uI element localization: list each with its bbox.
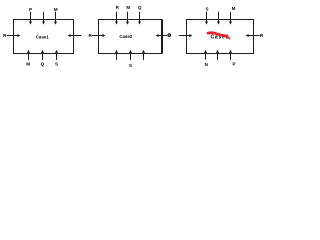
wire bottom pin 3 of Case2 [143, 53, 145, 60]
arrowhead bottom pin 1 of Case3 [204, 50, 207, 53]
wire bottom pin 1 of Case3 [205, 53, 207, 60]
svg-text:M: M [232, 6, 236, 11]
arrowhead bottom pin 3 of Case2 [142, 50, 145, 53]
arrowhead top pin 1 of Case3 [205, 22, 208, 25]
wire top pin 2 of Case2 [127, 12, 129, 22]
svg-text:M: M [54, 7, 58, 12]
wire right pin of Case3 [248, 35, 260, 37]
arrowhead top pin 2 of Case3 [217, 22, 220, 25]
arrowhead left pin of Case1 [17, 34, 20, 37]
arrowhead top pin 1 of Case1 [29, 22, 32, 25]
wire left pin of Case2 [92, 35, 104, 37]
svg-text:S: S [55, 62, 58, 67]
wire top pin 1 of Case3 [206, 12, 208, 22]
wire bottom pin 2 of Case2 [130, 53, 132, 60]
svg-text:R: R [260, 33, 264, 39]
arrowhead bottom pin 1 of Case1 [27, 50, 30, 53]
svg-text:Q: Q [138, 5, 142, 10]
svg-text:Case1: Case1 [36, 34, 49, 39]
red strike mark over Case3 [208, 33, 227, 37]
wire right pin of Case1 [70, 35, 82, 37]
arrowhead top pin 2 of Case2 [126, 22, 129, 25]
svg-text:S: S [205, 7, 208, 12]
label o right of Case2 [168, 34, 171, 37]
wire top pin 2 of Case1 [43, 12, 45, 22]
wire bottom pin 3 of Case3 [230, 53, 232, 60]
wire right pin of Case2 [158, 35, 168, 37]
svg-text:Q: Q [41, 62, 45, 67]
arrowhead top pin 3 of Case1 [54, 22, 57, 25]
arrowhead bottom pin 3 of Case3 [229, 50, 232, 53]
block Case1 [14, 20, 74, 54]
svg-text:P: P [29, 7, 32, 12]
svg-text:Case2: Case2 [119, 34, 132, 39]
svg-text:R: R [116, 5, 120, 10]
wire top pin 2 of Case3 [218, 12, 220, 22]
arrowhead bottom pin 2 of Case3 [216, 50, 219, 53]
arrowhead top pin 1 of Case2 [115, 22, 118, 25]
wire top pin 1 of Case1 [30, 12, 32, 22]
arrowhead top pin 2 of Case1 [42, 22, 45, 25]
arrowhead left pin of Case2 [102, 34, 105, 37]
wire left pin of Case1 [7, 35, 19, 37]
wire bottom pin 2 of Case1 [42, 53, 44, 60]
wire bottom pin 2 of Case3 [217, 53, 219, 60]
wire top pin 1 of Case2 [116, 12, 118, 22]
wire bottom pin 1 of Case2 [116, 53, 118, 60]
arrowhead bottom pin 2 of Case1 [41, 50, 44, 53]
block Case2 [99, 20, 162, 54]
arrowhead right pin of Case2 [156, 34, 159, 37]
wire left pin of Case3 [179, 35, 191, 37]
svg-text:R: R [3, 33, 7, 38]
arrowhead top pin 3 of Case3 [229, 22, 232, 25]
svg-text:P: P [232, 61, 235, 66]
arrowhead right pin of Case3 [246, 34, 249, 37]
block Case3 [187, 20, 254, 54]
arrowhead bottom pin 2 of Case2 [129, 50, 132, 53]
arrowhead right pin of Case1 [68, 34, 71, 37]
wire top pin 3 of Case2 [139, 12, 141, 22]
red tail of strike mark [228, 37, 230, 38]
svg-text:M: M [126, 5, 130, 10]
wire bottom pin 3 of Case1 [56, 53, 58, 60]
wire top pin 3 of Case3 [230, 12, 232, 22]
svg-text:N: N [205, 62, 209, 67]
wire top pin 3 of Case1 [55, 12, 57, 22]
arrowhead bottom pin 1 of Case2 [115, 50, 118, 53]
arrowhead bottom pin 3 of Case1 [55, 50, 58, 53]
svg-text:S: S [129, 63, 132, 68]
extra thickness of Case2 right edge [162, 20, 164, 54]
arrowhead top pin 3 of Case2 [138, 22, 141, 25]
arrowhead left pin of Case3 [189, 34, 192, 37]
svg-text:M: M [26, 62, 30, 67]
wire bottom pin 1 of Case1 [28, 53, 30, 60]
